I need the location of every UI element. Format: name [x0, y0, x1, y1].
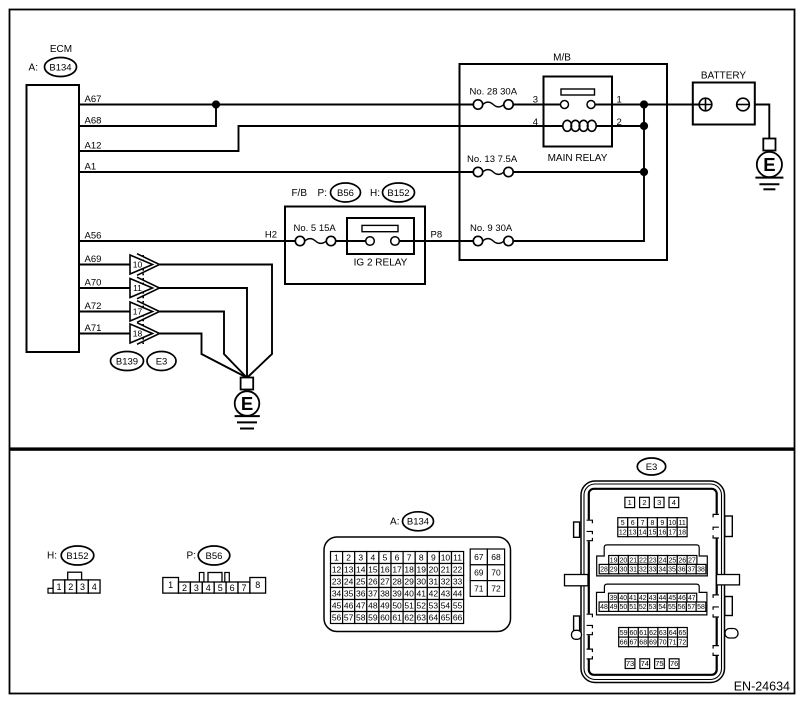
- svg-text:50: 50: [620, 604, 628, 611]
- svg-text:H2: H2: [265, 230, 277, 241]
- svg-text:51: 51: [404, 601, 414, 611]
- svg-text:H:: H:: [47, 550, 57, 561]
- wire relay contact 1 to battery: [595, 104, 699, 106]
- svg-text:2: 2: [642, 498, 646, 507]
- node H2: [265, 230, 277, 241]
- wire A67 to fuse No.28: [79, 104, 474, 106]
- svg-text:F/B: F/B: [291, 188, 307, 199]
- pin 4: [533, 117, 538, 128]
- svg-text:44: 44: [659, 595, 667, 602]
- ECM block label: [50, 44, 72, 55]
- svg-text:16: 16: [658, 529, 666, 536]
- svg-text:BATTERY: BATTERY: [701, 71, 747, 82]
- ground E (battery): [755, 139, 783, 190]
- svg-text:30: 30: [417, 577, 427, 587]
- svg-text:25: 25: [356, 577, 366, 587]
- main relay contact 3: [561, 101, 569, 109]
- svg-text:5: 5: [621, 520, 625, 527]
- wire pin 11 to ground: [160, 288, 248, 378]
- svg-text:A:: A:: [390, 517, 399, 528]
- svg-text:43: 43: [649, 595, 657, 602]
- E3 pins 39-47: [609, 593, 697, 602]
- wire pin 10 to ground: [160, 265, 273, 378]
- svg-text:15: 15: [368, 565, 378, 575]
- main relay contact bar: [561, 89, 595, 95]
- svg-text:A:: A:: [29, 62, 38, 73]
- svg-text:2: 2: [68, 582, 73, 592]
- svg-text:E: E: [241, 393, 253, 414]
- connector view B134 pin grid 1-66: [331, 552, 464, 624]
- svg-text:17: 17: [668, 529, 676, 536]
- connector pass-through arrow pin 11 (A70): [79, 277, 160, 299]
- svg-text:12: 12: [332, 565, 342, 575]
- svg-text:24: 24: [344, 577, 354, 587]
- svg-text:P:: P:: [318, 188, 327, 199]
- svg-text:E: E: [763, 154, 775, 175]
- E3 pins 39-58 panel: [597, 584, 707, 615]
- svg-text:M/B: M/B: [553, 53, 571, 64]
- wire fuse No.9 to bus / bus riser: [513, 105, 644, 242]
- svg-text:47: 47: [688, 595, 696, 602]
- svg-text:21: 21: [629, 557, 637, 564]
- svg-text:64: 64: [669, 630, 677, 637]
- svg-text:29: 29: [404, 577, 414, 587]
- svg-text:41: 41: [417, 589, 427, 599]
- svg-text:A71: A71: [85, 323, 102, 334]
- connector view E3 inner profile: [589, 489, 717, 675]
- svg-text:38: 38: [697, 567, 705, 574]
- svg-text:39: 39: [392, 589, 402, 599]
- wire A56 to fuse No.5 (H2): [79, 240, 296, 242]
- svg-text:36: 36: [356, 589, 366, 599]
- svg-text:44: 44: [453, 589, 463, 599]
- svg-text:36: 36: [678, 567, 686, 574]
- svg-text:21: 21: [441, 565, 451, 575]
- svg-text:14: 14: [639, 529, 647, 536]
- junction dot bus/battery wire: [640, 100, 648, 108]
- svg-text:32: 32: [639, 567, 647, 574]
- svg-text:67: 67: [474, 552, 484, 562]
- svg-text:50: 50: [392, 601, 402, 611]
- svg-text:47: 47: [356, 601, 366, 611]
- svg-text:ECM: ECM: [50, 44, 72, 55]
- svg-text:39: 39: [610, 595, 618, 602]
- E3 right upper tab: [725, 516, 733, 537]
- svg-text:14: 14: [356, 565, 366, 575]
- connector view E3 outer shell: [581, 481, 725, 683]
- svg-text:11: 11: [133, 283, 142, 293]
- svg-text:52: 52: [639, 604, 647, 611]
- section divider: [10, 447, 795, 450]
- pin A1: [85, 162, 97, 173]
- connector label P: B56: [318, 183, 361, 202]
- connector pass-through arrow pin 17 (A72): [79, 301, 160, 323]
- node P8: [431, 230, 443, 241]
- connector view B134 shell: [324, 537, 511, 632]
- svg-text:68: 68: [639, 639, 647, 646]
- svg-text:11: 11: [679, 520, 686, 527]
- svg-text:72: 72: [491, 584, 501, 594]
- svg-text:62: 62: [404, 613, 414, 623]
- connector view A: B134 label: [390, 512, 433, 531]
- svg-text:19: 19: [610, 557, 618, 564]
- svg-text:45: 45: [668, 595, 676, 602]
- svg-text:58: 58: [356, 613, 366, 623]
- fuse No. 9 30A: [470, 223, 513, 246]
- svg-text:18: 18: [133, 329, 143, 339]
- svg-text:37: 37: [688, 567, 696, 574]
- svg-text:1: 1: [628, 498, 632, 507]
- svg-text:B139: B139: [116, 356, 138, 367]
- svg-text:37: 37: [368, 589, 378, 599]
- E3 right round tab: [725, 629, 738, 639]
- svg-text:13: 13: [629, 529, 637, 536]
- svg-text:29: 29: [610, 567, 618, 574]
- svg-text:40: 40: [619, 595, 627, 602]
- svg-text:9: 9: [660, 520, 664, 527]
- svg-text:62: 62: [649, 630, 657, 637]
- E3 left upper tab: [574, 522, 580, 537]
- svg-text:18: 18: [678, 529, 686, 536]
- svg-text:No. 13 7.5A: No. 13 7.5A: [467, 154, 518, 165]
- svg-text:17: 17: [392, 565, 402, 575]
- pin A67: [85, 94, 102, 105]
- svg-text:A67: A67: [85, 94, 102, 105]
- connector view B134 pin grid 67-72: [470, 549, 504, 596]
- svg-text:A56: A56: [85, 231, 102, 242]
- svg-text:A69: A69: [85, 254, 102, 265]
- wire fuse No.28 to relay contact 3: [513, 104, 561, 106]
- svg-text:1: 1: [56, 582, 61, 592]
- svg-text:54: 54: [658, 604, 666, 611]
- svg-text:73: 73: [626, 659, 634, 668]
- F/B label: [291, 188, 307, 199]
- F/B fuse box: [285, 207, 425, 285]
- svg-text:71: 71: [669, 639, 677, 646]
- svg-text:EN-24634: EN-24634: [734, 679, 790, 693]
- connector view B152 body: [48, 572, 100, 593]
- svg-text:34: 34: [658, 567, 666, 574]
- svg-text:45: 45: [332, 601, 342, 611]
- svg-text:B152: B152: [387, 188, 409, 199]
- pin A68: [85, 116, 102, 127]
- svg-text:38: 38: [380, 589, 390, 599]
- pin A56: [85, 231, 102, 242]
- svg-text:43: 43: [441, 589, 451, 599]
- svg-text:65: 65: [441, 613, 451, 623]
- svg-text:P:: P:: [187, 550, 196, 561]
- svg-text:10: 10: [133, 260, 143, 270]
- svg-text:61: 61: [639, 630, 647, 637]
- E3 pins 19-38 panel: [597, 545, 708, 576]
- svg-text:4: 4: [672, 498, 676, 507]
- svg-text:56: 56: [678, 604, 686, 611]
- main relay box: [544, 77, 613, 147]
- svg-text:3: 3: [657, 498, 661, 507]
- svg-text:76: 76: [670, 659, 678, 668]
- svg-text:42: 42: [639, 595, 647, 602]
- svg-text:59: 59: [620, 630, 628, 637]
- svg-text:74: 74: [641, 659, 649, 668]
- pin 3: [533, 94, 538, 105]
- svg-text:56: 56: [332, 613, 342, 623]
- main relay coil: [563, 120, 596, 131]
- svg-text:9: 9: [431, 553, 436, 563]
- svg-text:27: 27: [380, 577, 390, 587]
- svg-text:3: 3: [358, 553, 363, 563]
- svg-text:No. 28 30A: No. 28 30A: [470, 87, 518, 98]
- svg-text:7: 7: [241, 583, 246, 593]
- svg-text:33: 33: [649, 567, 657, 574]
- M/B label: [553, 53, 571, 64]
- svg-text:7: 7: [641, 520, 645, 527]
- svg-text:33: 33: [453, 577, 463, 587]
- svg-text:E3: E3: [156, 356, 168, 367]
- fuse No. 13 7.5A: [467, 154, 518, 177]
- svg-text:41: 41: [629, 595, 637, 602]
- connector label E3 (schematic): [147, 352, 176, 371]
- svg-text:31: 31: [629, 567, 637, 574]
- svg-text:34: 34: [332, 589, 342, 599]
- connector label B139: [111, 352, 144, 371]
- svg-text:1: 1: [334, 553, 339, 563]
- svg-text:61: 61: [392, 613, 402, 623]
- svg-text:60: 60: [630, 630, 638, 637]
- pin A70: [85, 278, 102, 289]
- E3 pins 1-4: [625, 497, 679, 507]
- svg-text:8: 8: [255, 580, 260, 590]
- E3 pins 19-27: [609, 556, 697, 565]
- svg-text:4: 4: [206, 583, 211, 593]
- connector label H: B152: [370, 183, 415, 202]
- svg-text:27: 27: [688, 557, 696, 564]
- BATTERY label: [701, 71, 747, 82]
- svg-text:No. 9 30A: No. 9 30A: [470, 223, 513, 234]
- svg-text:7: 7: [407, 553, 412, 563]
- connector pass-through arrow pin 10 (A69): [79, 254, 160, 276]
- svg-text:23: 23: [649, 557, 657, 564]
- svg-text:48: 48: [600, 604, 608, 611]
- svg-text:No. 5 15A: No. 5 15A: [294, 223, 337, 234]
- svg-text:48: 48: [368, 601, 378, 611]
- E3 right wing: [717, 575, 740, 585]
- svg-text:22: 22: [453, 565, 463, 575]
- svg-text:30: 30: [620, 567, 628, 574]
- connector view E3 label: [637, 458, 665, 475]
- svg-text:A70: A70: [85, 278, 102, 289]
- svg-text:57: 57: [687, 604, 695, 611]
- wire pin 18 to ground: [160, 334, 247, 378]
- svg-text:B56: B56: [337, 188, 354, 199]
- svg-text:53: 53: [649, 604, 657, 611]
- M/B main fuse box: [460, 64, 668, 260]
- svg-text:26: 26: [678, 557, 686, 564]
- IG 2 relay: [347, 218, 414, 254]
- svg-text:70: 70: [491, 568, 501, 578]
- wire fuse No.5 to IG2 relay: [336, 240, 366, 242]
- svg-text:B152: B152: [66, 551, 88, 562]
- battery box: [693, 83, 755, 125]
- svg-text:53: 53: [429, 601, 439, 611]
- wire A1 to fuse No.13: [79, 171, 474, 173]
- connector label A: B134 (ECM): [29, 58, 77, 77]
- svg-text:8: 8: [419, 553, 424, 563]
- svg-text:70: 70: [659, 639, 667, 646]
- svg-text:B134: B134: [407, 517, 429, 528]
- svg-text:69: 69: [474, 568, 484, 578]
- E3 left wing: [565, 575, 589, 586]
- pin A12: [85, 141, 102, 152]
- svg-text:51: 51: [629, 604, 637, 611]
- ground E (ECM shield ground): [235, 378, 260, 429]
- svg-text:28: 28: [600, 567, 608, 574]
- svg-text:3: 3: [194, 583, 199, 593]
- E3 left lower tab: [574, 616, 580, 632]
- svg-text:63: 63: [417, 613, 427, 623]
- svg-text:2: 2: [182, 583, 187, 593]
- svg-text:5: 5: [383, 553, 388, 563]
- E3 pins 28-38: [599, 564, 706, 573]
- svg-text:6: 6: [230, 583, 235, 593]
- svg-text:49: 49: [380, 601, 390, 611]
- pin A71: [85, 323, 102, 334]
- svg-text:54: 54: [441, 601, 451, 611]
- wire fuse No.13 to bus: [513, 171, 644, 173]
- svg-text:8: 8: [650, 520, 654, 527]
- svg-text:4: 4: [370, 553, 375, 563]
- wire relay coil pin 2 to bus: [596, 125, 644, 127]
- svg-text:65: 65: [679, 630, 687, 637]
- svg-text:B56: B56: [206, 551, 223, 562]
- svg-text:E3: E3: [646, 462, 658, 473]
- wire A12 to main relay coil pin 4: [79, 126, 563, 151]
- wire IG2 relay to fuse No.9: [400, 240, 474, 242]
- E3 left round tab: [572, 630, 582, 639]
- wire battery to ground: [755, 105, 770, 139]
- svg-text:A1: A1: [85, 162, 97, 173]
- svg-text:63: 63: [659, 630, 667, 637]
- connector view H: B152 label: [47, 546, 94, 565]
- svg-text:1: 1: [168, 580, 173, 590]
- junction dot A67/A68: [212, 100, 220, 108]
- pin 1: [617, 94, 622, 105]
- svg-text:2: 2: [346, 553, 351, 563]
- IG 2 RELAY label: [354, 258, 408, 269]
- svg-text:A72: A72: [85, 301, 102, 312]
- pin A72: [85, 301, 102, 312]
- svg-text:3: 3: [80, 582, 85, 592]
- svg-text:66: 66: [620, 639, 628, 646]
- junction dot bus/coil wire: [640, 122, 648, 130]
- svg-text:71: 71: [474, 584, 484, 594]
- svg-text:75: 75: [655, 659, 663, 668]
- svg-text:57: 57: [344, 613, 354, 623]
- svg-text:11: 11: [453, 553, 462, 563]
- svg-text:20: 20: [429, 565, 439, 575]
- svg-text:60: 60: [380, 613, 390, 623]
- svg-text:B134: B134: [49, 62, 71, 73]
- E3 pins 5-18: [618, 518, 687, 537]
- connector pass-through arrow pin 18 (A71): [79, 323, 160, 345]
- svg-text:IG 2 RELAY: IG 2 RELAY: [354, 258, 408, 269]
- wire A68 rising to A67 junction: [79, 105, 216, 127]
- drawing number EN-24634: [734, 679, 790, 693]
- svg-text:26: 26: [368, 577, 378, 587]
- svg-text:19: 19: [417, 565, 427, 575]
- svg-text:A12: A12: [85, 141, 102, 152]
- svg-text:16: 16: [380, 565, 390, 575]
- svg-text:A68: A68: [85, 116, 102, 127]
- svg-text:42: 42: [429, 589, 439, 599]
- fuse No. 5 15A: [294, 223, 337, 246]
- svg-text:5: 5: [218, 583, 223, 593]
- svg-text:3: 3: [533, 94, 538, 105]
- wire pin 17 to ground: [160, 312, 247, 378]
- connector view P: B56 label: [187, 546, 230, 565]
- fuse No. 28 30A: [470, 87, 518, 110]
- svg-text:12: 12: [619, 529, 627, 536]
- svg-text:72: 72: [679, 639, 687, 646]
- svg-text:25: 25: [669, 557, 677, 564]
- svg-text:55: 55: [453, 601, 463, 611]
- E3 right lower tab: [725, 597, 733, 616]
- svg-text:68: 68: [491, 552, 501, 562]
- E3 pins 59-72: [619, 628, 688, 647]
- svg-text:22: 22: [639, 557, 647, 564]
- svg-text:49: 49: [610, 604, 618, 611]
- svg-text:10: 10: [441, 553, 451, 563]
- svg-text:58: 58: [697, 604, 705, 611]
- ECM body: [27, 85, 80, 352]
- svg-text:6: 6: [631, 520, 635, 527]
- svg-text:32: 32: [441, 577, 451, 587]
- svg-text:55: 55: [668, 604, 676, 611]
- svg-text:H:: H:: [370, 188, 380, 199]
- pin A69: [85, 254, 102, 265]
- junction dot bus/fuse13 wire: [640, 168, 648, 176]
- connector view B56 body: [163, 573, 266, 594]
- svg-text:67: 67: [630, 639, 638, 646]
- MAIN RELAY label: [548, 153, 608, 164]
- dotted connector boundary line: [142, 255, 144, 344]
- main relay contact 1: [587, 101, 595, 109]
- svg-text:35: 35: [344, 589, 354, 599]
- svg-text:MAIN RELAY: MAIN RELAY: [548, 153, 608, 164]
- svg-text:6: 6: [395, 553, 400, 563]
- svg-text:24: 24: [659, 557, 667, 564]
- svg-text:15: 15: [649, 529, 657, 536]
- svg-text:40: 40: [404, 589, 414, 599]
- svg-text:17: 17: [133, 307, 143, 317]
- svg-text:59: 59: [368, 613, 378, 623]
- svg-text:10: 10: [668, 520, 676, 527]
- svg-text:66: 66: [453, 613, 463, 623]
- E3 pins 73-76: [625, 659, 679, 669]
- svg-text:4: 4: [533, 117, 538, 128]
- svg-text:64: 64: [429, 613, 439, 623]
- svg-text:18: 18: [404, 565, 414, 575]
- svg-text:46: 46: [344, 601, 354, 611]
- svg-text:69: 69: [649, 639, 657, 646]
- svg-text:4: 4: [92, 582, 97, 592]
- svg-text:23: 23: [332, 577, 342, 587]
- svg-text:52: 52: [417, 601, 427, 611]
- svg-text:20: 20: [620, 557, 628, 564]
- svg-text:13: 13: [344, 565, 354, 575]
- svg-text:P8: P8: [431, 230, 443, 241]
- svg-text:31: 31: [429, 577, 439, 587]
- svg-text:35: 35: [668, 567, 676, 574]
